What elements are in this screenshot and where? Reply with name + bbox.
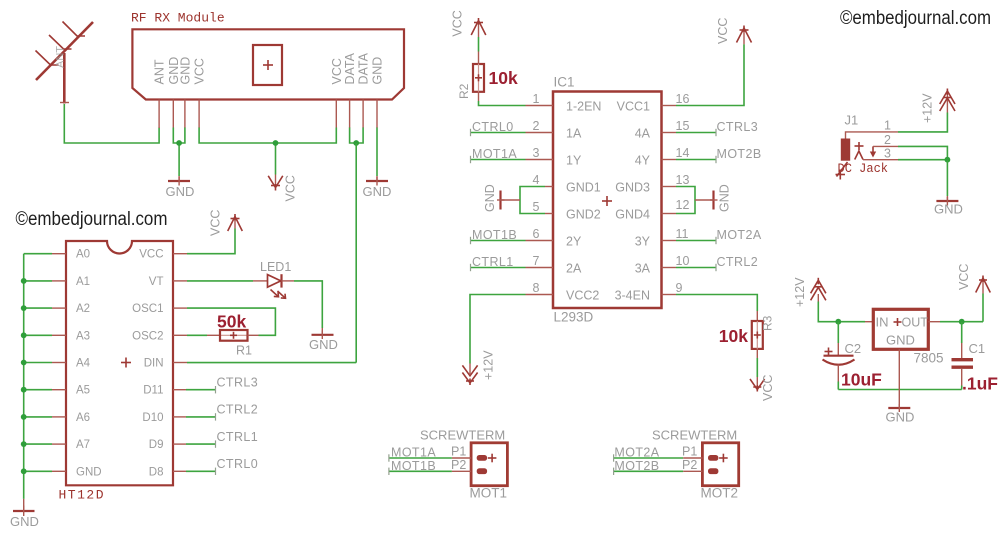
- svg-text:GND: GND: [886, 333, 915, 348]
- net label CTRL3 at IC1: [717, 120, 759, 134]
- svg-text:MOT2A: MOT2A: [717, 228, 762, 242]
- svg-text:VCC: VCC: [193, 58, 207, 84]
- junction bus A7: [21, 441, 27, 447]
- svg-text:IC1: IC1: [554, 75, 575, 90]
- wire OSC2 to R1: [173, 334, 207, 336]
- wire jack pin1 to +12V: [898, 113, 947, 132]
- svg-text:ANT: ANT: [55, 46, 67, 68]
- wire A5 to bus: [24, 389, 52, 391]
- svg-text:VCC: VCC: [139, 249, 163, 261]
- L293D pin number 5: [533, 200, 540, 214]
- DC jack plus: [855, 142, 864, 150]
- L293D pin name 1A: [566, 127, 582, 141]
- svg-text:P2: P2: [682, 458, 697, 472]
- wire pin9 to R3: [662, 295, 758, 312]
- MOT2 contact P2: [708, 468, 718, 474]
- svg-text:CTRL2: CTRL2: [217, 403, 259, 417]
- C2 value 10uF: [841, 370, 882, 390]
- wire DATA pins junction: [350, 128, 364, 144]
- HT12D pin name GND: [76, 466, 102, 478]
- RF RX Module pin label ANT: [153, 59, 167, 84]
- svg-text:2: 2: [533, 119, 540, 133]
- svg-text:GND2: GND2: [566, 208, 601, 222]
- LED1 emission arrows: [271, 290, 286, 299]
- label VCC above R2: [451, 10, 465, 36]
- RF RX Module inner box: [253, 45, 282, 85]
- svg-text:7805: 7805: [914, 351, 944, 366]
- svg-text:10: 10: [676, 254, 690, 268]
- HT12D pin name D9: [149, 439, 164, 451]
- svg-text:HT12D: HT12D: [59, 488, 106, 503]
- wire OSC1 loop: [173, 308, 275, 335]
- ground symbol under module right: [363, 176, 392, 199]
- svg-text:A3: A3: [76, 330, 90, 342]
- L293D pin name 3A: [635, 262, 651, 276]
- regulator 7805 body: [873, 309, 928, 349]
- junction C2 top: [835, 319, 841, 325]
- HT12D pin A2: [52, 307, 66, 309]
- wire D11 stub: [173, 386, 216, 393]
- wire GND1 GND2 left: [520, 187, 553, 214]
- RF RX Module pin label GND: [167, 57, 181, 85]
- label VCC under module: [284, 175, 298, 201]
- svg-text:CTRL2: CTRL2: [717, 255, 759, 269]
- svg-text:MOT2A: MOT2A: [614, 446, 659, 460]
- svg-text:14: 14: [676, 146, 690, 160]
- RF RX Module pin VCC left: [198, 100, 200, 129]
- svg-text:5: 5: [533, 200, 540, 214]
- L293D pin name 2Y: [566, 235, 582, 249]
- IC1 L293D body: [553, 92, 662, 309]
- capacitor C1: [952, 322, 974, 390]
- wire MOT1A stub pin3: [471, 156, 554, 163]
- svg-text:16: 16: [676, 92, 690, 106]
- L293D pin number 10: [676, 254, 690, 268]
- svg-text:GND: GND: [371, 57, 385, 85]
- svg-text:C1: C1: [969, 341, 986, 356]
- svg-text:.1uF: .1uF: [962, 374, 998, 394]
- IC1 name label: [554, 75, 575, 90]
- svg-text:L293D: L293D: [554, 310, 594, 325]
- svg-text:10k: 10k: [719, 326, 748, 346]
- svg-text:DC Jack: DC Jack: [838, 161, 889, 176]
- svg-text:VCC: VCC: [761, 375, 775, 401]
- svg-text:2Y: 2Y: [566, 235, 582, 249]
- L293D pin name GND4: [615, 208, 650, 222]
- svg-text:GND: GND: [309, 337, 338, 352]
- regulator value 7805: [914, 351, 944, 366]
- wire VT to LED: [173, 280, 253, 282]
- svg-text:D9: D9: [149, 439, 164, 451]
- svg-text:10k: 10k: [489, 68, 518, 88]
- svg-text:©embedjournal.com: ©embedjournal.com: [16, 209, 168, 230]
- R2 name label rotated: [457, 83, 471, 99]
- L293D pin name GND2: [566, 208, 601, 222]
- wire jack gnd down: [946, 160, 948, 196]
- C2 name label: [845, 341, 862, 356]
- junction module gnd: [176, 140, 182, 146]
- L293D value label: [554, 310, 594, 325]
- HT12D pin name D8: [149, 466, 164, 478]
- resistor R2: [473, 64, 484, 92]
- MOT1 pin label P2: [451, 458, 466, 472]
- net label MOT1B: [391, 459, 436, 473]
- DC jack barrel: [841, 139, 850, 161]
- L293D pin number 15: [676, 119, 690, 133]
- L293D pin number 6: [533, 227, 540, 241]
- svg-text:12: 12: [676, 198, 690, 212]
- svg-text:4: 4: [533, 173, 540, 187]
- svg-text:13: 13: [676, 173, 690, 187]
- DC Jack label: [836, 161, 889, 180]
- svg-text:GND: GND: [934, 202, 963, 217]
- L293D pin number 1: [533, 92, 540, 106]
- supply +12V arrow regulator input: [811, 278, 826, 302]
- supply VCC arrow regulator out: [976, 276, 991, 294]
- L293D pin number 9: [676, 281, 683, 295]
- svg-text:MOT1A: MOT1A: [472, 147, 517, 161]
- svg-text:9: 9: [676, 281, 683, 295]
- svg-text:8: 8: [533, 281, 540, 295]
- svg-text:3-4EN: 3-4EN: [615, 289, 650, 303]
- junction C1 top: [959, 319, 965, 325]
- L293D pin number 11: [676, 227, 689, 241]
- svg-text:2A: 2A: [566, 262, 582, 276]
- HT12D center plus: [121, 358, 131, 368]
- ground symbol regulator: [886, 404, 915, 425]
- svg-text:A6: A6: [76, 412, 90, 424]
- svg-text:MOT1B: MOT1B: [391, 459, 436, 473]
- HT12D pin A3: [52, 334, 66, 336]
- svg-text:A7: A7: [76, 439, 90, 451]
- svg-text:A1: A1: [76, 276, 90, 288]
- L293D pin name 4Y: [635, 154, 651, 168]
- wire D10 stub: [173, 413, 216, 420]
- svg-text:3: 3: [884, 147, 891, 161]
- svg-text:VCC: VCC: [957, 264, 971, 290]
- L293D pin number 12: [676, 198, 690, 212]
- MOT2 pin label P1: [682, 445, 697, 459]
- svg-text:DATA: DATA: [357, 52, 371, 84]
- net label CTRL2 at IC1: [717, 255, 759, 269]
- svg-text:R1: R1: [236, 344, 252, 358]
- svg-text:DIN: DIN: [144, 358, 164, 370]
- svg-text:MOT1A: MOT1A: [391, 446, 436, 460]
- connector MOT2 body: [702, 443, 738, 486]
- svg-text:CTRL3: CTRL3: [217, 376, 259, 390]
- wire A4 to bus: [24, 362, 52, 364]
- svg-text:SCREWTERM: SCREWTERM: [420, 428, 505, 443]
- connector MOT1 SCREWTERM label: [420, 428, 505, 443]
- regulator pin label GND: [886, 333, 915, 348]
- connector MOT2 SCREWTERM label: [652, 428, 737, 443]
- wire GND3 GND4 right: [662, 187, 696, 214]
- connector MOT1 body: [471, 443, 507, 486]
- svg-text:VCC: VCC: [284, 175, 298, 201]
- L293D pin name 1-2EN: [566, 100, 601, 114]
- svg-text:50k: 50k: [217, 312, 246, 332]
- svg-text:OUT: OUT: [902, 316, 929, 330]
- net label CTRL0 at IC1: [472, 120, 514, 134]
- svg-text:A0: A0: [76, 249, 90, 261]
- svg-text:VCC: VCC: [451, 10, 465, 36]
- svg-text:VCC1: VCC1: [617, 100, 650, 114]
- svg-text:2: 2: [884, 133, 891, 147]
- R3 value 10k: [719, 326, 748, 346]
- HT12D pin A0: [52, 253, 66, 255]
- junction bus A3: [21, 332, 27, 338]
- L293D pin name GND3: [615, 181, 650, 195]
- resistor R3: [752, 311, 763, 349]
- junction bus GND: [21, 468, 27, 474]
- HT12D pin GND: [52, 470, 66, 472]
- svg-text:+12V: +12V: [921, 93, 935, 123]
- wire CTRL1 stub pin7: [471, 264, 554, 271]
- label GND right of IC1 rotated: [718, 184, 732, 212]
- MOT2 value label: [701, 486, 739, 501]
- DC jack pin 2: [873, 133, 898, 147]
- wire VCC1 pin16 to VCC: [662, 44, 745, 105]
- svg-text:11: 11: [676, 227, 689, 241]
- L293D pin number 14: [676, 146, 690, 160]
- junction bus A2: [21, 305, 27, 311]
- HT12D pin A5: [52, 389, 66, 391]
- svg-text:IN: IN: [876, 315, 889, 330]
- svg-text:+12V: +12V: [482, 350, 496, 380]
- resistor R1: [207, 330, 259, 341]
- MOT2 contact P1: [708, 455, 718, 461]
- RF RX Module pin ANT: [158, 100, 160, 129]
- wire OUT to VCC: [928, 294, 983, 322]
- L293D pin name 1Y: [566, 154, 582, 168]
- svg-text:1A: 1A: [566, 127, 582, 141]
- svg-text:CTRL0: CTRL0: [217, 457, 259, 471]
- DC jack switch tent: [855, 151, 863, 160]
- junction module data: [353, 140, 359, 146]
- wire VCC rail: [199, 128, 336, 175]
- capacitor C2 polarized: [823, 322, 855, 390]
- L293D pin name 3-4EN: [615, 289, 650, 303]
- RF RX Module pin VCC right: [335, 100, 337, 129]
- HT12D pin name VT: [149, 276, 164, 288]
- svg-text:GND: GND: [76, 466, 102, 478]
- svg-text:A2: A2: [76, 303, 90, 315]
- MOT1 plus mark: [488, 454, 497, 463]
- HT12D pin name A2: [76, 303, 90, 315]
- HT12D pin A4: [52, 362, 66, 364]
- svg-text:DATA: DATA: [343, 52, 357, 84]
- wire A7 to bus: [24, 443, 52, 445]
- HT12D pin name A3: [76, 330, 90, 342]
- regulator pin label OUT: [902, 316, 929, 330]
- supply +12V arrow above jack: [940, 89, 955, 113]
- MOT2 pin label P2: [682, 458, 697, 472]
- wire D9 stub: [173, 440, 216, 447]
- svg-text:VCC2: VCC2: [566, 289, 599, 303]
- ground symbol under module left: [166, 176, 195, 199]
- svg-text:MOT2B: MOT2B: [614, 459, 659, 473]
- MOT1 value label: [470, 486, 508, 501]
- svg-text:6: 6: [533, 227, 540, 241]
- svg-text:CTRL0: CTRL0: [472, 120, 514, 134]
- R3 name label rotated: [761, 315, 775, 331]
- ground symbol below jack: [934, 196, 963, 217]
- svg-text:D8: D8: [149, 466, 164, 478]
- svg-text:VCC: VCC: [716, 18, 730, 44]
- svg-text:A4: A4: [76, 358, 91, 370]
- svg-text:OSC1: OSC1: [132, 303, 163, 315]
- svg-text:1Y: 1Y: [566, 154, 582, 168]
- wire MOT1B stub pin6: [471, 237, 554, 244]
- HT12D pin A6: [52, 416, 66, 418]
- RF RX Module pin GND a: [172, 100, 174, 129]
- svg-text:P1: P1: [682, 445, 697, 459]
- wire CTRL0 stub pin2: [471, 129, 554, 136]
- wire MOT1B stub: [389, 468, 471, 475]
- wire A0 to bus: [24, 253, 52, 255]
- svg-text:7: 7: [533, 254, 540, 268]
- svg-text:MOT1B: MOT1B: [472, 228, 517, 242]
- label +12V below pin8: [482, 350, 496, 380]
- LED1 diode: [253, 274, 294, 287]
- HT12D pin name OSC1: [132, 303, 163, 315]
- L293D pin name VCC2: [566, 289, 599, 303]
- HT12D pin name DIN: [144, 358, 164, 370]
- wire VCC2 pin8 to +12V: [470, 295, 553, 364]
- label VCC above HT12D: [209, 210, 223, 236]
- net label MOT1A at IC1: [472, 147, 517, 161]
- svg-text:P2: P2: [451, 458, 466, 472]
- RF RX Module pin GND right: [376, 100, 378, 129]
- wire R3 to VCC down: [756, 349, 758, 377]
- label VCC regulator out: [957, 264, 971, 290]
- svg-text:1-2EN: 1-2EN: [566, 100, 601, 114]
- R2 value 10k: [489, 68, 518, 88]
- supply VCC down arrow under module: [268, 175, 283, 191]
- svg-text:1: 1: [884, 119, 891, 133]
- label GND left of IC1 rotated: [483, 184, 497, 212]
- RF RX Module body: [132, 29, 404, 99]
- wire LED to gnd: [294, 281, 322, 328]
- wire jack pin2 to gnd: [898, 146, 947, 159]
- svg-text:R3: R3: [761, 315, 775, 331]
- regulator pin label IN: [876, 315, 889, 330]
- wire CTRL2 stub pin10: [662, 264, 717, 271]
- supply +12V arrow below pin8: [462, 364, 477, 386]
- net label MOT1A: [391, 446, 436, 460]
- junction module vcc: [273, 140, 279, 146]
- wire R2 to VCC: [478, 37, 480, 64]
- HT12D pin name VCC: [139, 249, 163, 261]
- wire MOT2B stub: [614, 468, 703, 475]
- IC U2 HT12D body: [66, 241, 173, 485]
- label VCC below R3: [761, 375, 775, 401]
- regulator GND pin wire: [898, 349, 900, 407]
- L293D pin number 7: [533, 254, 540, 268]
- wire R2 to pin1: [479, 92, 554, 106]
- svg-text:3: 3: [533, 146, 540, 160]
- svg-text:MOT1: MOT1: [470, 486, 508, 501]
- svg-text:MOT2: MOT2: [701, 486, 739, 501]
- net label MOT2B: [614, 459, 659, 473]
- wire jack pin3 to gnd: [898, 159, 947, 161]
- connector J1 name label: [845, 113, 859, 128]
- svg-text:P1: P1: [451, 445, 466, 459]
- junction bus A1: [21, 278, 27, 284]
- wire +12V to regulator IN: [818, 302, 873, 322]
- svg-text:GND1: GND1: [566, 181, 601, 195]
- svg-text:GND: GND: [166, 184, 195, 199]
- net label CTRL1 at IC1: [472, 255, 514, 269]
- supply VCC arrow above R2: [471, 18, 486, 37]
- L293D pin number 3: [533, 146, 540, 160]
- svg-text:GND: GND: [178, 57, 192, 85]
- HT12D pin name A6: [76, 412, 90, 424]
- label +12V regulator input: [793, 277, 807, 307]
- svg-text:GND: GND: [10, 514, 39, 529]
- svg-text:3A: 3A: [635, 262, 651, 276]
- MOT1 contact P2: [477, 468, 487, 474]
- wire A2 to bus: [24, 307, 52, 309]
- net label CTRL3 at HT12D: [217, 376, 259, 390]
- junction bus A5: [21, 387, 27, 393]
- HT12D pin name D10: [142, 412, 163, 424]
- HT12D pin name A7: [76, 439, 90, 451]
- svg-text:CTRL1: CTRL1: [472, 255, 514, 269]
- svg-text:4Y: 4Y: [635, 154, 651, 168]
- L293D pin number 8: [533, 281, 540, 295]
- ground symbol right of IC1: [695, 191, 718, 210]
- svg-text:D11: D11: [143, 385, 163, 397]
- RF RX Module pin label DATA: [343, 52, 357, 84]
- net label MOT2A at IC1: [717, 228, 762, 242]
- svg-text:GND3: GND3: [615, 181, 650, 195]
- L293D pin name 4A: [635, 127, 651, 141]
- svg-text:CTRL1: CTRL1: [217, 430, 259, 444]
- svg-text:GND: GND: [363, 184, 392, 199]
- HT12D pin name A4: [76, 358, 91, 370]
- antenna tooth 1: [36, 51, 59, 66]
- net label CTRL0 at HT12D: [217, 457, 259, 471]
- antenna label ANT: [55, 46, 67, 68]
- HT12D pin A1: [52, 280, 66, 282]
- regulator plus mark: [894, 318, 902, 326]
- supply VCC arrow above HT12D: [228, 214, 243, 231]
- svg-text:MOT2B: MOT2B: [717, 147, 762, 161]
- svg-text:15: 15: [676, 119, 690, 133]
- R1 name label: [236, 344, 252, 358]
- label +12V above jack: [921, 93, 935, 123]
- L293D center plus: [602, 196, 612, 206]
- DC jack pin 3: [863, 147, 898, 161]
- wire DIN to data: [173, 362, 356, 364]
- wire antenna to ANT pin: [64, 104, 159, 143]
- antenna mast: [60, 53, 69, 104]
- net label MOT1B at IC1: [472, 228, 517, 242]
- label VCC above pin16: [716, 18, 730, 44]
- RF RX Module pin label VCC: [193, 58, 207, 84]
- svg-text:+12V: +12V: [793, 277, 807, 307]
- C1 name label: [969, 341, 986, 356]
- ground symbol bottom left: [10, 499, 39, 529]
- L293D pin name 3Y: [635, 235, 651, 249]
- svg-text:GND: GND: [483, 184, 497, 212]
- wire module right gnd: [376, 128, 378, 177]
- RF RX Module pin label GND: [371, 57, 385, 85]
- svg-text:LED1: LED1: [260, 260, 291, 274]
- L293D pin number 2: [533, 119, 540, 133]
- supply VCC arrow below R3: [750, 377, 765, 392]
